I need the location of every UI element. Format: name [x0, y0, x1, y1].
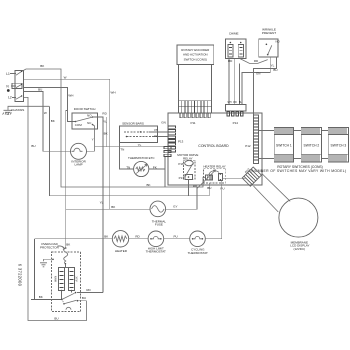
svg-text:BU: BU [31, 144, 35, 148]
svg-text:WH: WH [111, 91, 116, 95]
svg-text:SWITCH 1: SWITCH 1 [276, 143, 292, 147]
svg-text:YL: YL [271, 63, 275, 67]
svg-text:W: W [64, 75, 67, 79]
svg-text:P17: P17 [179, 176, 185, 180]
svg-text:COM: COM [75, 123, 83, 127]
svg-text:BK: BK [40, 64, 44, 68]
svg-text:BK: BK [66, 243, 70, 247]
svg-text:GN: GN [161, 121, 166, 125]
svg-text:6 3722000: 6 3722000 [18, 264, 23, 287]
svg-text:TN: TN [120, 147, 124, 151]
svg-text:BK: BK [111, 205, 115, 209]
svg-text:PROTECTOR: PROTECTOR [40, 245, 60, 249]
svg-text:THERMOSTAT: THERMOSTAT [188, 251, 208, 255]
svg-text:P13: P13 [178, 139, 184, 143]
svg-text:CHASSIS: CHASSIS [11, 108, 24, 112]
svg-text:WH: WH [228, 101, 232, 104]
svg-text:ROTARY ENCODER: ROTARY ENCODER [181, 48, 210, 52]
svg-text:BU: BU [38, 88, 42, 92]
svg-text:P11: P11 [190, 121, 195, 125]
svg-text:HEATER: HEATER [115, 249, 128, 253]
svg-text:SWITCH 3: SWITCH 3 [331, 143, 347, 147]
svg-text:HEATER RELAY: HEATER RELAY [203, 164, 225, 168]
svg-text:L2: L2 [8, 95, 12, 99]
svg-text:YL: YL [154, 134, 158, 138]
svg-text:(NUMBER OF SWITCHES MAY VARY W: (NUMBER OF SWITCHES MAY VARY WITH MODEL) [251, 169, 347, 173]
svg-text:MAIN: MAIN [55, 276, 58, 282]
svg-text:P12: P12 [245, 144, 251, 148]
svg-text:W: W [44, 111, 47, 115]
svg-text:YL: YL [138, 143, 142, 147]
svg-text:PK: PK [153, 165, 157, 169]
svg-text:LAMP: LAMP [75, 163, 83, 167]
svg-text:BK: BK [51, 119, 55, 123]
svg-text:BK: BK [146, 183, 150, 187]
svg-text:BU: BU [273, 68, 277, 72]
svg-text:YL: YL [103, 120, 107, 124]
svg-text:(12VDC): (12VDC) [293, 247, 305, 251]
svg-text:WH: WH [68, 94, 73, 98]
svg-text:VT: VT [154, 128, 158, 132]
svg-text:BK: BK [104, 132, 108, 136]
svg-text:FUSE: FUSE [155, 223, 163, 227]
svg-text:BK: BK [104, 234, 108, 238]
svg-text:BU: BU [207, 186, 211, 190]
svg-text:THERMISTOR ETC: THERMISTOR ETC [128, 156, 155, 160]
svg-text:Y: Y [92, 137, 94, 141]
svg-text:PU: PU [174, 235, 178, 239]
svg-text:AND ACTIVATION: AND ACTIVATION [183, 53, 208, 57]
svg-text:PREVENT: PREVENT [262, 31, 276, 35]
svg-text:DOOR SWITCH: DOOR SWITCH [74, 107, 96, 111]
svg-text:SWITCH 2: SWITCH 2 [304, 143, 320, 147]
svg-text:CHIME: CHIME [229, 31, 239, 35]
svg-text:TN: TN [126, 165, 130, 169]
svg-text:CONTROL BOARD: CONTROL BOARD [198, 144, 229, 148]
svg-text:BK: BK [39, 295, 43, 299]
svg-text:THERMOSTAT: THERMOSTAT [146, 250, 166, 254]
svg-text:SENSOR BARS: SENSOR BARS [122, 121, 144, 125]
svg-text:SWITCH (CONS): SWITCH (CONS) [184, 57, 207, 61]
svg-text:GN: GN [256, 71, 261, 75]
svg-text:BU: BU [54, 317, 58, 321]
svg-text:GY: GY [173, 204, 177, 208]
svg-text:YL: YL [100, 200, 104, 204]
svg-text:PU: PU [220, 186, 224, 190]
svg-text:BU: BU [82, 296, 86, 300]
svg-text:RD: RD [233, 101, 237, 104]
svg-text:L1: L1 [6, 72, 10, 76]
svg-text:NO: NO [87, 113, 92, 117]
svg-text:AUX: AUX [76, 276, 79, 281]
svg-text:P14: P14 [233, 121, 239, 125]
